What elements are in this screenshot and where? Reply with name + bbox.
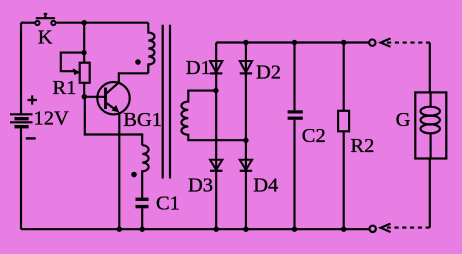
diode D3 xyxy=(210,160,222,171)
label C2 xyxy=(302,125,326,147)
node: C1 bottom junction dot xyxy=(140,227,145,232)
svg-text:C2: C2 xyxy=(302,125,326,147)
wire: left rail (battery top side) xyxy=(20,23,22,114)
transformer feedback winding (bottom) xyxy=(142,145,148,197)
node: D2 top junction dot xyxy=(243,40,248,45)
svg-text:G: G xyxy=(396,109,411,131)
node: D4 bottom junction dot xyxy=(243,227,248,232)
node: C2 bottom junction dot xyxy=(292,227,297,232)
wire: D2/D4 branch vertical xyxy=(245,43,247,230)
wire: emitter down to bottom rail xyxy=(118,112,120,229)
svg-text:12V: 12V xyxy=(34,107,70,129)
svg-text:R1: R1 xyxy=(53,77,77,99)
transformer secondary winding xyxy=(181,91,245,141)
label D2 xyxy=(256,62,281,84)
label 12V xyxy=(34,107,70,129)
svg-text:D2: D2 xyxy=(256,62,281,84)
wire: base node down and right to feedback winding xyxy=(85,97,142,145)
wire: switch to transformer primary top xyxy=(56,22,149,24)
label BG1 xyxy=(123,109,162,131)
node: base junction dot xyxy=(82,94,87,99)
node: D3 bottom junction dot xyxy=(214,227,219,232)
resistor R2 xyxy=(338,43,349,230)
svg-text:C1: C1 xyxy=(156,192,180,214)
svg-text:K: K xyxy=(38,26,53,48)
svg-text:D4: D4 xyxy=(253,174,278,196)
svg-text:BG1: BG1 xyxy=(123,109,162,131)
wire: base node to transistor base xyxy=(84,96,105,98)
node: junction dot rheostat wiper loop xyxy=(81,50,86,55)
node: junction dot top rail / R1 branch xyxy=(82,20,87,25)
node: secondary bottom junction dot xyxy=(243,138,248,143)
wire: dashed lead to G (bottom) with arrow xyxy=(381,159,430,233)
battery 12V xyxy=(10,95,37,138)
node: secondary top junction dot xyxy=(213,88,218,93)
label C1 xyxy=(156,192,180,214)
wire: collector up to primary winding xyxy=(119,73,149,82)
capacitor C2 xyxy=(288,43,303,230)
transistor BG1 xyxy=(97,82,129,114)
wire: dashed lead to G (top) with arrow xyxy=(381,38,430,92)
inductive load G (box with coil) xyxy=(415,92,446,158)
node: R2 top junction dot xyxy=(341,40,346,45)
node: R2 bottom junction dot xyxy=(341,227,346,232)
label D1 xyxy=(186,57,211,79)
wire: top-left rail from battery to switch xyxy=(21,22,36,24)
label R1 xyxy=(53,77,77,99)
diode D2 xyxy=(240,61,252,73)
node: C2 top junction dot xyxy=(292,40,297,45)
node: feedback winding polarity dot xyxy=(131,172,137,178)
terminal: output minus xyxy=(370,226,376,232)
wire: R1 bottom to base node xyxy=(83,83,85,97)
transformer core xyxy=(163,25,170,179)
node: emitter bottom junction dot xyxy=(117,227,122,232)
wire: D1/D3 branch vertical xyxy=(215,43,217,230)
wire: rheostat wiper loop with arrow xyxy=(61,53,84,76)
transformer primary winding (top, collector side) xyxy=(148,23,154,74)
wire: left rail (battery bottom side) xyxy=(20,128,22,229)
svg-text:D1: D1 xyxy=(186,57,211,79)
wire: bottom rail xyxy=(21,228,369,230)
terminal: output plus xyxy=(369,39,375,45)
svg-text:D3: D3 xyxy=(188,174,213,196)
switch K xyxy=(35,14,55,25)
diode D1 xyxy=(210,61,222,73)
wire: R1 branch vertical from top rail xyxy=(83,23,85,63)
label R2 xyxy=(350,135,374,157)
node: primary polarity dot xyxy=(135,59,141,65)
label D4 xyxy=(253,174,278,196)
resistor R1 (rheostat body) xyxy=(80,63,90,83)
label G xyxy=(396,109,411,131)
label D3 xyxy=(188,174,213,196)
svg-text:R2: R2 xyxy=(350,135,374,157)
diode D4 xyxy=(240,160,252,171)
wire: top output rail xyxy=(216,41,369,43)
capacitor C1 xyxy=(136,199,149,229)
label K xyxy=(38,26,53,48)
